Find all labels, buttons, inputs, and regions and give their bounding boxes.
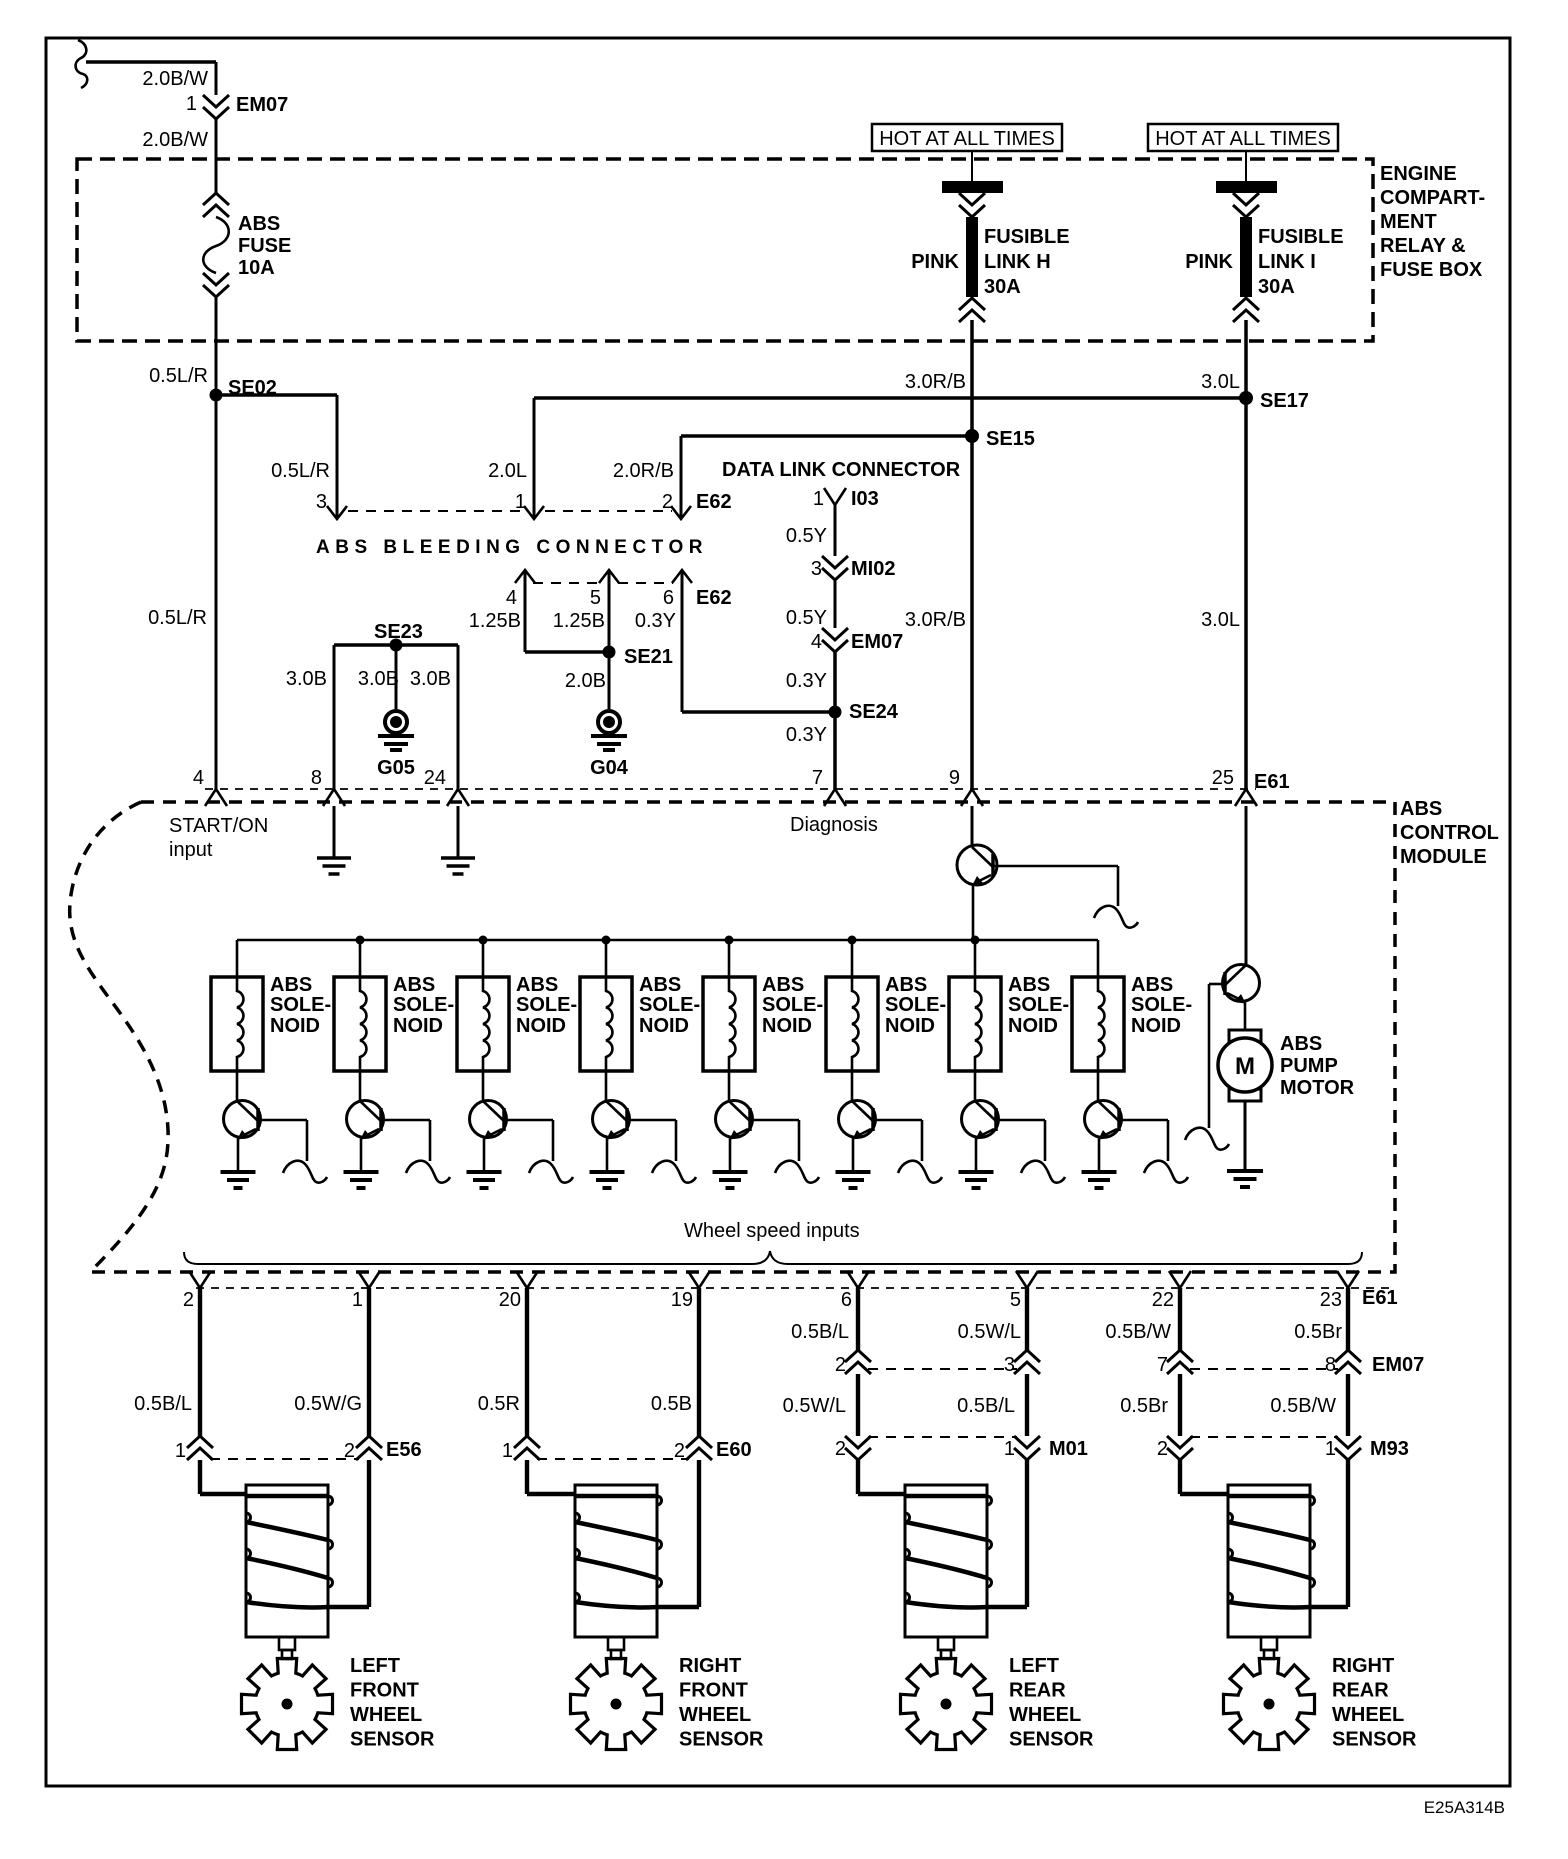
svg-text:3: 3: [811, 558, 822, 580]
svg-text:0.5B/L: 0.5B/L: [791, 1321, 849, 1343]
svg-text:3.0B: 3.0B: [286, 668, 327, 690]
svg-text:G05: G05: [377, 757, 415, 779]
svg-text:ABS: ABS: [1008, 974, 1050, 996]
svg-text:9: 9: [949, 767, 960, 789]
svg-text:7: 7: [1157, 1354, 1168, 1376]
svg-text:E62: E62: [696, 587, 732, 609]
svg-text:0.5Br: 0.5Br: [1120, 1395, 1168, 1417]
svg-text:4: 4: [193, 767, 204, 789]
svg-text:MENT: MENT: [1380, 211, 1437, 233]
svg-text:E61: E61: [1362, 1287, 1398, 1309]
svg-text:8: 8: [1325, 1354, 1336, 1376]
svg-text:SOLE-: SOLE-: [1131, 994, 1192, 1016]
svg-text:1: 1: [1004, 1438, 1015, 1460]
svg-text:6: 6: [663, 587, 674, 609]
svg-text:SOLE-: SOLE-: [516, 994, 577, 1016]
svg-text:LEFT: LEFT: [1009, 1655, 1059, 1677]
svg-text:NOID: NOID: [1008, 1015, 1058, 1037]
svg-text:NOID: NOID: [393, 1015, 443, 1037]
svg-text:2.0B: 2.0B: [565, 670, 606, 692]
svg-text:22: 22: [1152, 1289, 1174, 1311]
svg-text:E56: E56: [386, 1439, 422, 1461]
svg-text:2.0B/W: 2.0B/W: [142, 129, 208, 151]
svg-text:1.25B: 1.25B: [553, 610, 605, 632]
svg-text:E25A314B: E25A314B: [1424, 1798, 1505, 1817]
svg-text:NOID: NOID: [270, 1015, 320, 1037]
svg-text:NOID: NOID: [762, 1015, 812, 1037]
svg-text:25: 25: [1212, 767, 1234, 789]
svg-text:2: 2: [835, 1354, 846, 1376]
svg-text:ABS: ABS: [516, 974, 558, 996]
svg-text:7: 7: [812, 767, 823, 789]
svg-text:FUSE: FUSE: [238, 235, 291, 257]
svg-text:NOID: NOID: [885, 1015, 935, 1037]
svg-text:3: 3: [316, 491, 327, 513]
svg-text:0.5B/L: 0.5B/L: [957, 1395, 1015, 1417]
svg-text:SE15: SE15: [986, 428, 1035, 450]
svg-text:PINK: PINK: [911, 251, 959, 273]
svg-text:3.0B: 3.0B: [358, 668, 399, 690]
svg-text:ABS: ABS: [639, 974, 681, 996]
svg-text:2.0B/W: 2.0B/W: [142, 68, 208, 90]
svg-text:NOID: NOID: [516, 1015, 566, 1037]
svg-text:0.5B/L: 0.5B/L: [134, 1393, 192, 1415]
svg-text:ABS: ABS: [1280, 1033, 1322, 1055]
svg-text:SOLE-: SOLE-: [762, 994, 823, 1016]
svg-text:0.3Y: 0.3Y: [786, 670, 827, 692]
svg-text:0.5B/W: 0.5B/W: [1270, 1395, 1336, 1417]
svg-text:WHEEL: WHEEL: [350, 1704, 422, 1726]
svg-text:SE21: SE21: [624, 646, 673, 668]
svg-text:SOLE-: SOLE-: [1008, 994, 1069, 1016]
svg-text:CONTROL: CONTROL: [1400, 822, 1499, 844]
svg-text:WHEEL: WHEEL: [1009, 1704, 1081, 1726]
svg-text:Diagnosis: Diagnosis: [790, 814, 878, 836]
svg-text:SE24: SE24: [849, 701, 899, 723]
svg-text:1: 1: [502, 1440, 513, 1462]
svg-text:EM07: EM07: [236, 94, 288, 116]
svg-text:0.5W/G: 0.5W/G: [294, 1393, 362, 1415]
svg-text:3.0L: 3.0L: [1201, 609, 1240, 631]
svg-text:1: 1: [175, 1440, 186, 1462]
svg-text:MOTOR: MOTOR: [1280, 1077, 1355, 1099]
svg-text:FUSIBLE: FUSIBLE: [984, 226, 1070, 248]
svg-text:3.0L: 3.0L: [1201, 371, 1240, 393]
svg-text:5: 5: [1010, 1289, 1021, 1311]
svg-text:M01: M01: [1049, 1438, 1088, 1460]
svg-text:SOLE-: SOLE-: [393, 994, 454, 1016]
svg-text:0.5B: 0.5B: [651, 1393, 692, 1415]
svg-text:NOID: NOID: [639, 1015, 689, 1037]
svg-text:SE17: SE17: [1260, 390, 1309, 412]
svg-text:SENSOR: SENSOR: [1332, 1729, 1417, 1751]
svg-text:0.5L/R: 0.5L/R: [149, 365, 208, 387]
svg-text:1: 1: [352, 1289, 363, 1311]
svg-text:PINK: PINK: [1185, 251, 1233, 273]
svg-text:REAR: REAR: [1009, 1680, 1066, 1702]
svg-text:RELAY &: RELAY &: [1380, 235, 1466, 257]
svg-text:COMPART-: COMPART-: [1380, 187, 1485, 209]
svg-text:ENGINE: ENGINE: [1380, 163, 1457, 185]
svg-text:3.0B: 3.0B: [410, 668, 451, 690]
svg-text:ABS: ABS: [1400, 798, 1442, 820]
svg-text:2: 2: [344, 1440, 355, 1462]
svg-text:1: 1: [813, 488, 824, 510]
svg-text:input: input: [169, 839, 213, 861]
svg-text:RIGHT: RIGHT: [1332, 1655, 1394, 1677]
svg-text:SOLE-: SOLE-: [270, 994, 331, 1016]
svg-text:M: M: [1235, 1053, 1255, 1080]
svg-text:1: 1: [515, 491, 526, 513]
svg-text:E62: E62: [696, 491, 732, 513]
svg-text:3.0R/B: 3.0R/B: [905, 371, 966, 393]
svg-text:WHEEL: WHEEL: [679, 1704, 751, 1726]
svg-text:19: 19: [671, 1289, 693, 1311]
svg-text:ABS: ABS: [762, 974, 804, 996]
svg-text:5: 5: [590, 587, 601, 609]
svg-text:8: 8: [311, 767, 322, 789]
svg-text:ABS: ABS: [1131, 974, 1173, 996]
svg-text:FRONT: FRONT: [679, 1680, 748, 1702]
svg-text:FUSIBLE: FUSIBLE: [1258, 226, 1344, 248]
svg-text:2.0L: 2.0L: [488, 460, 527, 482]
svg-text:0.3Y: 0.3Y: [635, 610, 676, 632]
svg-text:ABS BLEEDING CONNECTOR: ABS BLEEDING CONNECTOR: [316, 537, 708, 558]
svg-text:2: 2: [835, 1438, 846, 1460]
svg-text:SOLE-: SOLE-: [885, 994, 946, 1016]
svg-text:30A: 30A: [984, 276, 1021, 298]
svg-text:2: 2: [662, 491, 673, 513]
svg-text:0.5L/R: 0.5L/R: [271, 460, 330, 482]
svg-text:G04: G04: [590, 757, 629, 779]
svg-text:2: 2: [183, 1289, 194, 1311]
svg-text:ABS: ABS: [885, 974, 927, 996]
svg-text:EM07: EM07: [1372, 1354, 1424, 1376]
svg-text:20: 20: [499, 1289, 521, 1311]
svg-text:SOLE-: SOLE-: [639, 994, 700, 1016]
svg-text:HOT AT ALL TIMES: HOT AT ALL TIMES: [1155, 128, 1331, 150]
svg-text:MI02: MI02: [851, 558, 895, 580]
svg-text:1.25B: 1.25B: [469, 610, 521, 632]
svg-text:1: 1: [1325, 1438, 1336, 1460]
svg-text:2: 2: [674, 1440, 685, 1462]
svg-text:0.5L/R: 0.5L/R: [148, 607, 207, 629]
svg-text:SENSOR: SENSOR: [679, 1729, 764, 1751]
svg-text:PUMP: PUMP: [1280, 1055, 1338, 1077]
svg-text:HOT AT ALL TIMES: HOT AT ALL TIMES: [879, 128, 1055, 150]
svg-text:24: 24: [424, 767, 446, 789]
svg-text:M93: M93: [1370, 1438, 1409, 1460]
svg-text:0.5Br: 0.5Br: [1294, 1321, 1342, 1343]
svg-text:DATA LINK CONNECTOR: DATA LINK CONNECTOR: [722, 459, 961, 481]
svg-text:0.5Y: 0.5Y: [786, 525, 827, 547]
svg-text:4: 4: [811, 631, 822, 653]
svg-text:0.5Y: 0.5Y: [786, 607, 827, 629]
svg-text:23: 23: [1320, 1289, 1342, 1311]
svg-text:0.5R: 0.5R: [478, 1393, 520, 1415]
svg-text:FUSE BOX: FUSE BOX: [1380, 259, 1483, 281]
svg-text:10A: 10A: [238, 257, 275, 279]
svg-text:0.5B/W: 0.5B/W: [1105, 1321, 1171, 1343]
svg-text:ABS: ABS: [270, 974, 312, 996]
svg-text:LEFT: LEFT: [350, 1655, 400, 1677]
svg-text:WHEEL: WHEEL: [1332, 1704, 1404, 1726]
svg-text:NOID: NOID: [1131, 1015, 1181, 1037]
svg-text:E61: E61: [1254, 771, 1290, 793]
svg-text:ABS: ABS: [238, 213, 280, 235]
svg-text:RIGHT: RIGHT: [679, 1655, 741, 1677]
svg-text:E60: E60: [716, 1439, 752, 1461]
svg-text:3.0R/B: 3.0R/B: [905, 609, 966, 631]
svg-text:START/ON: START/ON: [169, 815, 268, 837]
svg-text:LINK I: LINK I: [1258, 251, 1316, 273]
svg-text:SENSOR: SENSOR: [350, 1729, 435, 1751]
svg-text:LINK H: LINK H: [984, 251, 1051, 273]
svg-text:1: 1: [186, 93, 197, 115]
svg-text:REAR: REAR: [1332, 1680, 1389, 1702]
svg-text:6: 6: [841, 1289, 852, 1311]
svg-text:0.3Y: 0.3Y: [786, 724, 827, 746]
svg-text:3: 3: [1004, 1354, 1015, 1376]
svg-text:4: 4: [506, 587, 517, 609]
svg-text:Wheel speed inputs: Wheel speed inputs: [684, 1220, 860, 1242]
svg-text:30A: 30A: [1258, 276, 1295, 298]
svg-text:0.5W/L: 0.5W/L: [958, 1321, 1021, 1343]
svg-text:2: 2: [1157, 1438, 1168, 1460]
svg-text:MODULE: MODULE: [1400, 846, 1487, 868]
svg-text:FRONT: FRONT: [350, 1680, 419, 1702]
svg-text:ABS: ABS: [393, 974, 435, 996]
svg-text:2.0R/B: 2.0R/B: [613, 460, 674, 482]
svg-text:SENSOR: SENSOR: [1009, 1729, 1094, 1751]
svg-text:I03: I03: [851, 488, 879, 510]
svg-text:EM07: EM07: [851, 631, 903, 653]
svg-text:0.5W/L: 0.5W/L: [783, 1395, 846, 1417]
